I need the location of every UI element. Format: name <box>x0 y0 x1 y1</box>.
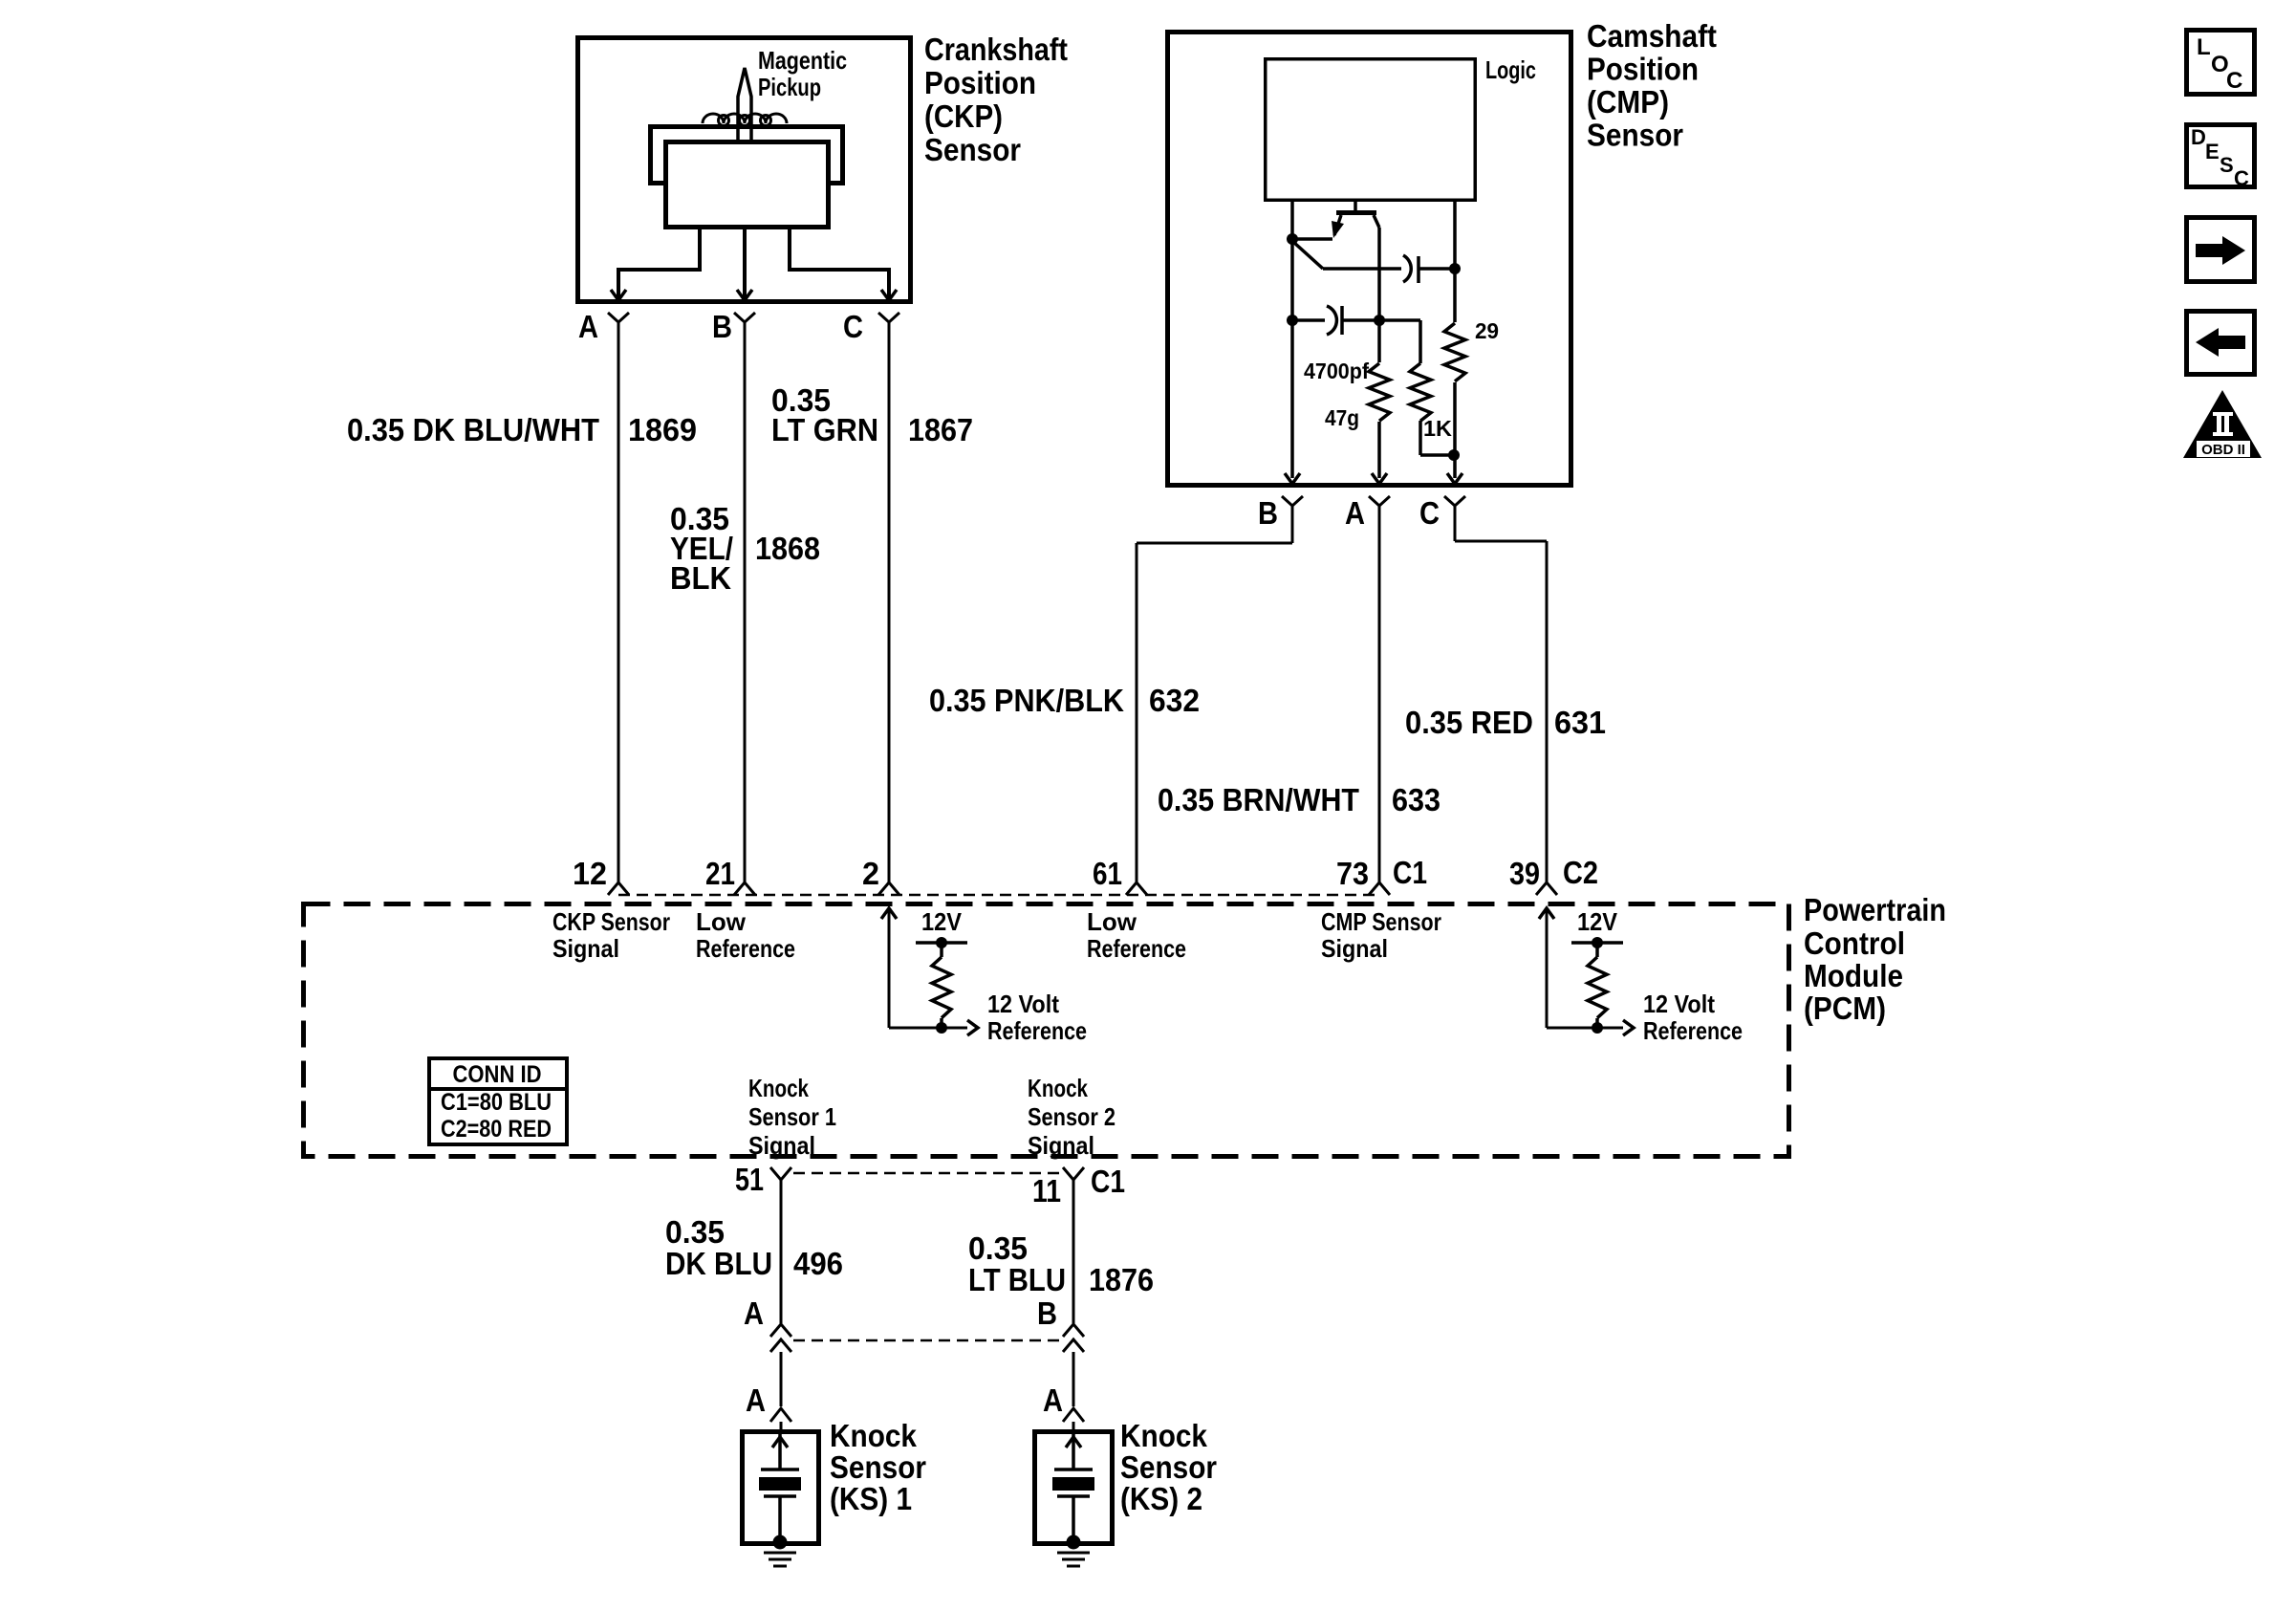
svg-text:61: 61 <box>1093 856 1122 891</box>
svg-text:0.35: 0.35 <box>968 1230 1028 1266</box>
svg-text:Signal: Signal <box>552 934 619 963</box>
svg-text:Reference: Reference <box>987 1016 1087 1045</box>
svg-text:0.35: 0.35 <box>665 1214 725 1250</box>
svg-text:C: C <box>2226 68 2242 94</box>
svg-text:12 Volt: 12 Volt <box>1643 990 1715 1018</box>
svg-text:BLK: BLK <box>670 560 731 596</box>
svg-text:11: 11 <box>1032 1173 1061 1208</box>
svg-text:(KS) 1: (KS) 1 <box>830 1481 912 1516</box>
svg-text:Knock: Knock <box>748 1074 809 1102</box>
svg-text:0.35 RED: 0.35 RED <box>1405 705 1533 740</box>
svg-text:73: 73 <box>1336 856 1369 891</box>
svg-text:LT BLU: LT BLU <box>968 1262 1066 1297</box>
svg-text:Sensor: Sensor <box>830 1449 926 1485</box>
svg-text:Crankshaft: Crankshaft <box>924 32 1068 67</box>
svg-text:Sensor: Sensor <box>1120 1449 1217 1485</box>
svg-text:DK BLU: DK BLU <box>665 1246 772 1281</box>
svg-text:Pickup: Pickup <box>758 73 821 101</box>
svg-text:1869: 1869 <box>628 412 697 447</box>
svg-text:Sensor: Sensor <box>1587 118 1683 153</box>
svg-text:Control: Control <box>1804 925 1905 961</box>
svg-text:Knock: Knock <box>1028 1074 1088 1102</box>
svg-text:A: A <box>1345 495 1365 531</box>
svg-text:0.35 DK BLU/WHT: 0.35 DK BLU/WHT <box>347 412 599 447</box>
svg-text:A: A <box>746 1382 766 1418</box>
svg-text:12V: 12V <box>921 907 963 936</box>
svg-text:0.35 PNK/BLK: 0.35 PNK/BLK <box>929 683 1124 718</box>
svg-text:C1=80 BLU: C1=80 BLU <box>441 1089 552 1116</box>
svg-text:Logic: Logic <box>1485 55 1536 84</box>
svg-text:Sensor 2: Sensor 2 <box>1028 1102 1116 1131</box>
svg-text:LT GRN: LT GRN <box>771 412 878 447</box>
svg-text:S: S <box>2220 153 2234 177</box>
svg-text:Powertrain: Powertrain <box>1804 892 1946 927</box>
svg-text:C2: C2 <box>1563 855 1598 890</box>
svg-text:Camshaft: Camshaft <box>1587 18 1717 54</box>
svg-text:Knock: Knock <box>830 1418 918 1453</box>
svg-text:C: C <box>1419 495 1440 531</box>
svg-text:4700pf: 4700pf <box>1304 359 1369 383</box>
svg-text:CMP Sensor: CMP Sensor <box>1321 907 1441 936</box>
svg-text:Sensor: Sensor <box>924 132 1021 167</box>
svg-text:631: 631 <box>1554 705 1606 740</box>
svg-text:OBD II: OBD II <box>2201 442 2245 458</box>
svg-text:Knock: Knock <box>1120 1418 1208 1453</box>
svg-text:L: L <box>2197 34 2211 60</box>
svg-text:C2=80 RED: C2=80 RED <box>441 1116 552 1143</box>
svg-text:1K: 1K <box>1423 416 1452 441</box>
svg-text:B: B <box>712 309 732 344</box>
svg-text:C1: C1 <box>1393 855 1427 890</box>
svg-text:0.35 BRN/WHT: 0.35 BRN/WHT <box>1158 782 1359 817</box>
svg-text:632: 632 <box>1149 683 1200 718</box>
svg-text:E: E <box>2205 140 2220 163</box>
svg-text:1876: 1876 <box>1089 1262 1154 1297</box>
svg-text:B: B <box>1037 1295 1057 1331</box>
svg-text:29: 29 <box>1475 318 1499 343</box>
svg-text:(CMP): (CMP) <box>1587 84 1669 120</box>
svg-text:12V: 12V <box>1577 907 1618 936</box>
svg-text:Low: Low <box>696 907 747 936</box>
svg-text:21: 21 <box>705 856 735 891</box>
svg-text:A: A <box>744 1295 764 1331</box>
svg-text:12: 12 <box>573 856 607 891</box>
svg-text:B: B <box>1258 495 1278 531</box>
svg-text:1867: 1867 <box>908 412 973 447</box>
svg-text:496: 496 <box>793 1246 843 1281</box>
svg-text:(PCM): (PCM) <box>1804 991 1886 1026</box>
svg-text:Low: Low <box>1087 907 1137 936</box>
svg-text:Reference: Reference <box>1087 934 1186 963</box>
svg-text:Signal: Signal <box>1321 934 1388 963</box>
svg-text:Position: Position <box>924 65 1036 100</box>
svg-text:D: D <box>2191 125 2206 149</box>
svg-text:Position: Position <box>1587 52 1699 87</box>
svg-text:(KS) 2: (KS) 2 <box>1120 1481 1202 1516</box>
svg-text:51: 51 <box>735 1162 764 1197</box>
svg-text:1868: 1868 <box>755 531 820 566</box>
svg-text:A: A <box>1043 1382 1063 1418</box>
svg-text:633: 633 <box>1392 782 1440 817</box>
svg-text:A: A <box>578 309 598 344</box>
svg-text:CKP Sensor: CKP Sensor <box>552 907 670 936</box>
svg-text:Signal: Signal <box>748 1131 815 1160</box>
svg-text:C: C <box>843 309 863 344</box>
svg-text:Module: Module <box>1804 958 1903 993</box>
svg-text:47g: 47g <box>1325 405 1359 430</box>
svg-text:(CKP): (CKP) <box>924 98 1003 134</box>
svg-text:C1: C1 <box>1091 1164 1125 1199</box>
svg-text:12 Volt: 12 Volt <box>987 990 1059 1018</box>
svg-text:Magentic: Magentic <box>758 46 847 75</box>
svg-text:Reference: Reference <box>696 934 795 963</box>
svg-text:Reference: Reference <box>1643 1016 1743 1045</box>
svg-text:39: 39 <box>1509 856 1540 891</box>
svg-text:Sensor 1: Sensor 1 <box>748 1102 836 1131</box>
svg-text:Signal: Signal <box>1028 1131 1094 1160</box>
svg-text:C: C <box>2234 166 2249 190</box>
svg-text:2: 2 <box>862 856 879 891</box>
svg-text:CONN ID: CONN ID <box>453 1061 542 1088</box>
